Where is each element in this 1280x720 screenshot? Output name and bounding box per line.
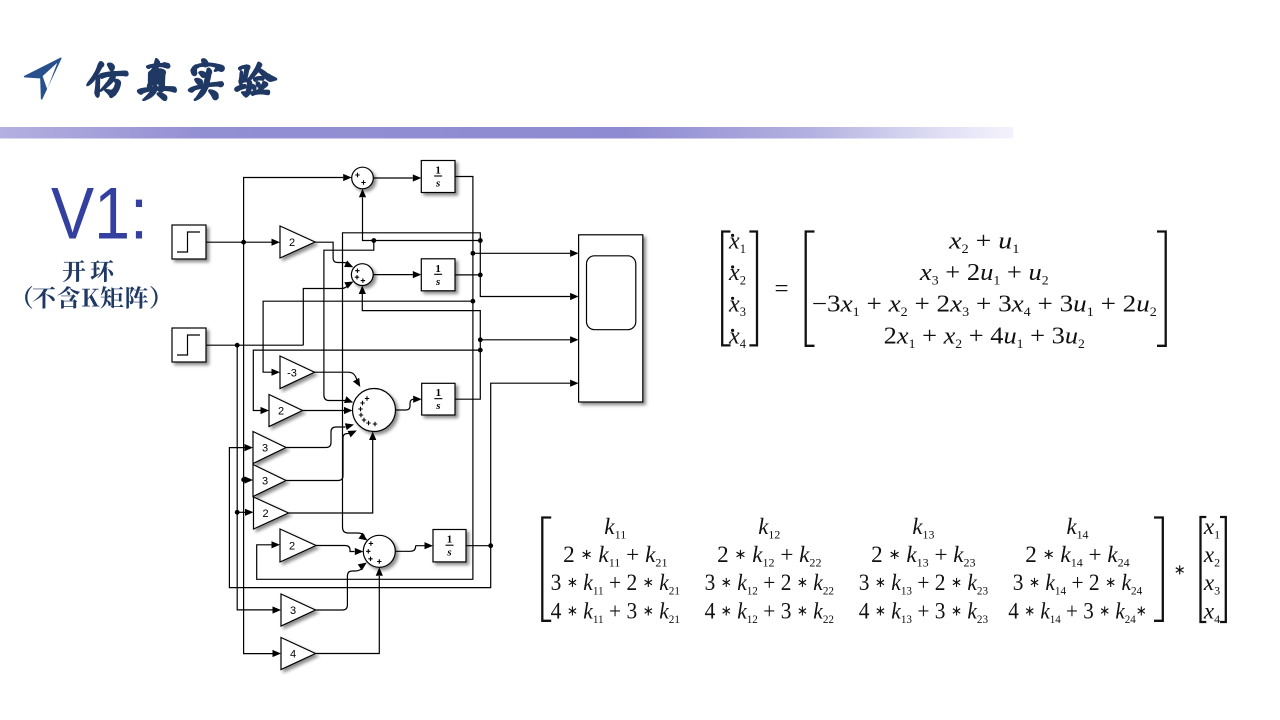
svg-text:s: s [435,276,440,288]
gain block Gain4 value 4 [281,638,316,670]
svg-text:∗: ∗ [1174,563,1186,579]
svg-text:x3: x3 [728,292,746,320]
svg-text:s: s [446,547,451,559]
svg-text:2 ∗ k12 + k22: 2 ∗ k12 + k22 [717,542,821,570]
gain block Gain-3 value -3 [280,356,315,389]
node x2 junction [478,273,483,278]
wire Gain-3 to Sum3 [315,372,358,381]
arrowhead into Sum1 left [343,174,352,181]
label 开环 [63,260,113,282]
title text 仿真实验 [87,59,276,100]
svg-text:x2 + u1: x2 + u1 [948,229,1019,257]
arrowhead into Gain-3 [272,369,281,376]
wire Sum3 to Integrator3 [396,399,416,410]
wire u1 from Step to Gain2a [206,241,272,243]
arrowhead into Sum2 upper-left [344,260,355,270]
wire Sum4 to Integrator4 [395,546,425,552]
gain block Gain2d value 2 [280,529,316,562]
svg-text:4: 4 [290,649,296,661]
svg-text:4 ∗ k11 + 3 ∗ k21: 4 ∗ k11 + 3 ∗ k21 [551,598,680,626]
wire x2 branch down to Sum3 [324,241,374,401]
svg-text:3: 3 [290,605,296,617]
svg-text:x2: x2 [728,260,746,288]
arrowhead into Sum2 lower-left [344,278,355,288]
svg-text:2x1 + x2 + 4u1 + 3u2: 2x1 + x2 + 4u1 + 3u2 [884,324,1085,352]
wire Gain2a to Sum2 [315,242,350,264]
node x4 junction [488,543,493,548]
arrowhead into Scope input 4 [570,380,579,387]
sum junction Sum4 [363,535,395,567]
svg-text:4 ∗ k14 + 3 ∗ k24∗: 4 ∗ k14 + 3 ∗ k24∗ [1008,598,1147,626]
svg-text:2: 2 [289,541,295,553]
svg-text:2 ∗ k11 + k21: 2 ∗ k11 + k21 [563,542,667,570]
gain block Gain2a value 2 [280,226,315,258]
svg-text:s: s [435,178,440,190]
node x3 tap to Scope [478,337,483,342]
svg-text:1: 1 [435,263,441,275]
arrowhead into Scope input 3 [570,336,579,343]
svg-text:1: 1 [447,534,453,546]
gain block Gain3c value 3 [281,594,316,626]
node u1 junction [241,240,246,245]
wire x2 from Integrator2 [455,274,480,276]
svg-text:3 ∗ k14 + 2 ∗ k24: 3 ∗ k14 + 2 ∗ k24 [1013,570,1142,598]
svg-text:x3 + 2u1 + u2: x3 + 2u1 + u2 [919,260,1049,288]
arrowhead into Sum3 input e [348,427,359,437]
wire x4 feedback loop [229,448,490,588]
arrowhead into Sum4 left [355,548,364,555]
sum junction Sum1 [352,167,374,189]
svg-text:k11: k11 [604,514,626,542]
arrowhead into Gain2b [261,407,270,414]
svg-text:2: 2 [278,406,284,418]
svg-text:k12: k12 [758,514,780,542]
arrowhead into Sum4 upper-left [358,533,369,544]
arrowhead into Sum1 bottom [359,189,366,198]
svg-text:3: 3 [262,476,268,488]
wire x4 from Integrator4 [466,383,570,546]
svg-text:x1: x1 [728,229,746,257]
wire x1 from Integrator1 [257,177,473,580]
svg-text:4 ∗ k12 + 3 ∗ k22: 4 ∗ k12 + 3 ∗ k22 [705,598,834,626]
label （不含K矩阵） [25,286,158,309]
arrowhead into Gain2d [272,541,281,548]
wire u2 riser to Sum2 [303,286,347,346]
arrowhead into Sum4 lower-left [358,560,369,571]
arrowhead into Integrator2 [413,271,422,278]
wire x1 to Gain-3 [263,301,473,372]
svg-text:x2: x2 [1203,542,1220,570]
wire Sum2 to Integrator2 [373,274,413,276]
svg-text:1: 1 [436,387,442,399]
svg-text:=: = [774,276,788,303]
svg-text:s: s [435,400,440,412]
wire u1 to Gain3b [244,479,245,481]
wire x2 top branch to Sum4 [343,233,481,536]
header gradient bar [0,0,1,1]
equation 2: K matrix times state vector [542,514,1226,626]
sum junction Sum2 [351,264,373,286]
wire Gain3a to Sum3 [286,427,346,448]
wire x3 to Scope in3 [480,339,570,341]
wire Gain4 to Sum4 [316,576,380,654]
svg-text:3 ∗ k13 + 2 ∗ k23: 3 ∗ k13 + 2 ∗ k23 [859,570,988,598]
wire x1 to Scope in1 [473,252,570,254]
svg-text:x3: x3 [1203,570,1220,598]
arrowhead into Sum3 input d [345,421,355,430]
svg-text:k14: k14 [1067,514,1089,542]
svg-text:x4: x4 [728,324,747,352]
node u2 junction [235,343,240,348]
svg-text:2 ∗ k13 + k23: 2 ∗ k13 + k23 [871,542,975,570]
step source Step1 u1 [172,225,206,259]
gain block Gain3b value 3 [253,465,286,497]
svg-text:k13: k13 [912,514,934,542]
title icon paper plane [25,58,61,99]
wire Gain3b to Sum3 [286,434,350,481]
node u2 tap to Gain2c [235,510,240,515]
sum junction Sum3 [353,389,396,432]
integrator Integrator2 1/s [421,259,455,291]
node u1 tap to Gain3b [241,477,246,482]
step source Step2 u2 [172,328,206,362]
wire x2 to Scope in2 [480,275,570,297]
wire Sum1 to Integrator1 [373,177,413,179]
arrowhead into Gain3b [245,476,254,483]
gain block Gain2c value 2 [254,497,289,529]
arrowhead into Gain2a [272,239,281,246]
node x2 branch [371,238,376,243]
node x3 tap feedback [478,348,483,353]
svg-text:x1: x1 [1203,514,1220,542]
svg-text:2: 2 [289,237,295,249]
wire u2 to Gain2c [237,511,245,513]
gain block Gain2b value 2 [269,395,303,427]
arrowhead into Gain3a [245,444,254,451]
svg-text:2: 2 [262,508,268,520]
svg-text:3 ∗ k11 + 2 ∗ k21: 3 ∗ k11 + 2 ∗ k21 [551,570,680,598]
node x2 tap [478,238,483,243]
wire Gain2d to Sum4 [316,546,355,552]
wire u2 down bus [237,345,272,610]
arrowhead into Sum3 input x2 [344,396,354,406]
wire u1 up to Sum1 [244,178,344,243]
wire x3 from Integrator3 [362,294,480,400]
arrowhead into Sum3 input c [344,407,353,414]
node x1 tap to Gain-3 [471,299,476,304]
svg-text:x4: x4 [1203,598,1220,626]
wire Gain2c to Sum3 [289,440,373,513]
arrowhead into Sum2 bottom [359,286,366,295]
node x1 tap to Scope [471,251,476,256]
arrowhead into Gain2c [245,509,254,516]
arrowhead into Gain3c [273,606,282,613]
arrowhead into Integrator3 [413,396,422,403]
wire u2 from Step2 [206,344,303,346]
arrowhead into Integrator4 [425,542,434,549]
wire x2 up and to Sum1 bottom [363,198,481,275]
arrowhead into Sum4 bottom [376,567,383,576]
svg-text:4 ∗ k13 + 3 ∗ k23: 4 ∗ k13 + 3 ∗ k23 [859,598,988,626]
svg-text:2 ∗ k14 + k24: 2 ∗ k14 + k24 [1025,542,1129,570]
arrowhead into Sum3 bottom [369,432,376,441]
svg-text:3: 3 [262,443,268,455]
arrowhead into Integrator1 [413,174,422,181]
wire Gain3c to Sum4 [316,568,364,611]
wire Gain2b to Sum3 [303,410,345,412]
scope block [579,235,643,402]
equation 1: state equations xdot = f(x,u) [722,229,1165,352]
arrowhead into Scope input 2 [570,293,579,300]
integrator Integrator3 1/s [422,383,455,415]
svg-text:3 ∗ k12 + 2 ∗ k22: 3 ∗ k12 + 2 ∗ k22 [705,570,834,598]
svg-text:−3x1 + x2 + 2x3 + 3x4 + 3u1 +: −3x1 + x2 + 2x3 + 3x4 + 3u1 + 2u2 [812,292,1157,320]
arrowhead into Gain4 [273,650,282,657]
arrowhead into Scope input 1 [570,250,579,257]
arrowhead into Sum3 input a [353,378,363,389]
wire x3 feedback to Gain2b [253,350,480,410]
svg-text:-3: -3 [287,367,297,379]
gain block Gain3a value 3 [253,432,286,464]
wire u1 down bus [244,242,273,653]
integrator Integrator4 1/s [433,530,466,562]
svg-text:1: 1 [435,165,441,177]
integrator Integrator1 1/s [421,161,455,193]
